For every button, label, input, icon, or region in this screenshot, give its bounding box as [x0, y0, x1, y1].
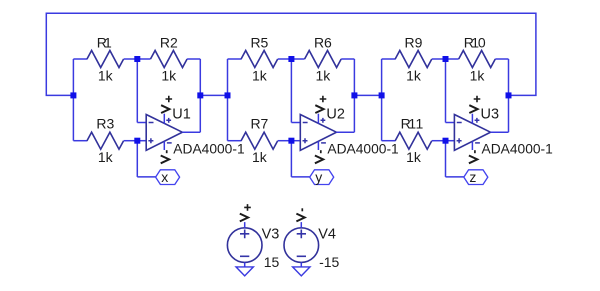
junction stage 3 input node	[379, 92, 385, 98]
wire stage 2 input vertical	[227, 59, 229, 141]
wire net label jog stage 3	[446, 176, 464, 178]
resistor R10	[459, 51, 496, 68]
svg-text:R10: R10	[464, 35, 486, 51]
resistor R1	[87, 51, 124, 68]
svg-text:R5: R5	[250, 35, 268, 51]
wire R10 left lead	[446, 58, 459, 60]
svg-text:1k: 1k	[406, 149, 422, 165]
svg-text:15: 15	[264, 254, 280, 270]
wire R6 left lead	[291, 58, 304, 60]
svg-text:R6: R6	[314, 35, 332, 51]
svg-text:R3: R3	[96, 116, 114, 132]
wire stage 3 input vertical	[381, 59, 383, 141]
resistor R6	[305, 51, 342, 68]
wire net label drop stage 3	[445, 141, 447, 177]
wire R3 left lead	[73, 140, 87, 142]
wire R3 right lead	[124, 140, 138, 142]
wire net label drop stage 1	[136, 141, 138, 177]
pin label V+ of U3	[469, 96, 480, 113]
svg-text:1k: 1k	[470, 68, 486, 84]
op-amp U3	[454, 115, 490, 151]
svg-text:y: y	[315, 169, 322, 185]
svg-text:R9: R9	[405, 35, 423, 51]
wire net label drop stage 2	[290, 141, 292, 177]
net label x	[156, 169, 180, 185]
junction stage 2 output node	[351, 92, 357, 98]
wire R2 right lead	[187, 58, 200, 60]
svg-text:V4: V4	[318, 227, 336, 243]
wire net label jog stage 2	[291, 176, 309, 178]
svg-text:z: z	[469, 169, 476, 185]
svg-text:1k: 1k	[98, 68, 114, 84]
resistor R9	[395, 51, 432, 68]
wire U3 output	[491, 131, 509, 133]
wire stage 2 output vertical	[353, 59, 355, 132]
wire V3 positive terminal stub	[244, 222, 246, 228]
wire net label jog stage 1	[137, 176, 155, 178]
svg-text:R1: R1	[97, 35, 112, 51]
wire R10 right lead	[495, 58, 508, 60]
wire inverting input jog stage 2	[291, 122, 300, 124]
junction stage 1 input node	[70, 92, 76, 98]
svg-text:U3: U3	[481, 106, 500, 122]
wire R6 right lead	[341, 58, 354, 60]
wire R2 left lead	[137, 58, 150, 60]
pin label V- at V4	[296, 208, 304, 221]
voltage source V3	[227, 228, 262, 263]
svg-text:1k: 1k	[252, 68, 268, 84]
junction stage 2 input node	[225, 92, 231, 98]
pin label V+ of U2	[315, 96, 326, 113]
pin label V- of U2	[315, 150, 323, 163]
wire R7 right lead	[278, 140, 292, 142]
net label z	[464, 169, 488, 185]
svg-text:x: x	[161, 169, 168, 185]
ground at V4	[293, 267, 310, 276]
wire stage2 output to stage3 input	[354, 94, 381, 96]
wire inverting input drop stage 3	[445, 59, 447, 123]
svg-text:1k: 1k	[252, 149, 268, 165]
svg-text:1k: 1k	[406, 68, 422, 84]
svg-text:U1: U1	[172, 106, 191, 122]
wire stage 1 output vertical	[199, 59, 201, 132]
wire V- power stub of U1	[163, 141, 165, 150]
svg-text:1k: 1k	[161, 68, 177, 84]
pin label V+ of U1	[161, 96, 172, 113]
wire V- power stub of U3	[471, 141, 473, 150]
wire inverting input jog stage 1	[137, 122, 146, 124]
wire R11 right lead	[432, 140, 446, 142]
svg-text:U2: U2	[326, 106, 345, 122]
pin label V- of U1	[161, 150, 169, 163]
wire U1 output	[182, 131, 200, 133]
junction R3/non-inverting input node	[134, 138, 140, 144]
svg-text:V3: V3	[262, 227, 280, 243]
resistor R7	[241, 132, 278, 149]
wire V- power stub of U2	[317, 141, 319, 150]
svg-text:R7: R7	[250, 116, 268, 132]
pin label V- of U3	[469, 150, 477, 163]
resistor R11	[395, 132, 432, 149]
junction stage 1 output node	[197, 92, 203, 98]
svg-text:R2: R2	[160, 35, 178, 51]
junction R7/non-inverting input node	[288, 138, 294, 144]
svg-text:1k: 1k	[98, 149, 114, 165]
wire V3 negative terminal stub	[244, 262, 246, 267]
wire V4 negative terminal stub	[300, 262, 302, 267]
wire non-inverting input jog stage 1	[137, 140, 146, 142]
wire feedback loop (stage3 output to top)	[46, 13, 536, 95]
junction R5/R6 node	[288, 56, 294, 62]
wire non-inverting input jog stage 3	[446, 140, 455, 142]
wire inverting input drop stage 1	[136, 59, 138, 123]
wire stage 3 output vertical	[508, 59, 510, 132]
wire inverting input jog stage 3	[446, 122, 455, 124]
resistor R3	[87, 132, 124, 149]
resistor R2	[151, 51, 188, 68]
op-amp U1	[146, 115, 182, 151]
wire V4 positive terminal stub	[300, 222, 302, 228]
junction R1/R2 node	[134, 56, 140, 62]
svg-text:-15: -15	[319, 254, 339, 270]
resistor R5	[241, 51, 278, 68]
wire U2 output	[336, 131, 354, 133]
wire R5 right lead	[278, 58, 292, 60]
wire R11 left lead	[382, 140, 396, 142]
wire inverting input drop stage 2	[290, 59, 292, 123]
ground at V3	[236, 267, 253, 276]
wire R1 left lead	[73, 58, 87, 60]
junction R11/non-inverting input node	[443, 138, 449, 144]
wire non-inverting input jog stage 2	[291, 140, 300, 142]
wire stage 1 input vertical	[72, 59, 74, 141]
svg-text:1k: 1k	[316, 68, 332, 84]
svg-text:ADA4000-1: ADA4000-1	[482, 141, 553, 156]
wire stage1 output to stage2 input	[200, 94, 227, 96]
junction R9/R10 node	[443, 56, 449, 62]
wire V+ power stub of U3	[471, 114, 473, 124]
wire V+ power stub of U2	[317, 114, 319, 124]
svg-text:R11: R11	[401, 116, 424, 132]
wire R7 left lead	[228, 140, 242, 142]
wire R5 left lead	[228, 58, 242, 60]
svg-text:ADA4000-1: ADA4000-1	[173, 141, 244, 156]
wire R9 left lead	[382, 58, 396, 60]
op-amp U2	[300, 115, 336, 151]
voltage source V4	[284, 228, 319, 263]
net label y	[310, 169, 334, 185]
svg-text:ADA4000-1: ADA4000-1	[327, 141, 398, 156]
wire R1 right lead	[124, 58, 138, 60]
wire V+ power stub of U1	[163, 114, 165, 124]
pin label V+ at V3	[240, 204, 251, 221]
wire R9 right lead	[432, 58, 446, 60]
junction stage 3 output node	[506, 92, 512, 98]
